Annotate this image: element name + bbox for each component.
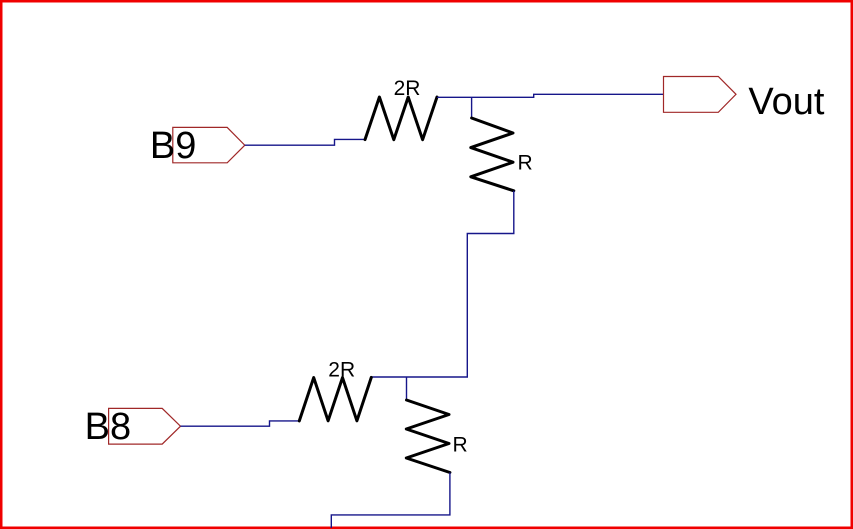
wire 2R to Vout port (437, 94, 664, 97)
port Vout (664, 77, 737, 113)
wire node B drop to bottom R (406, 377, 408, 400)
resistor R (bottom, vertical) (406, 400, 450, 473)
svg-text:2R: 2R (328, 359, 355, 382)
resistor 2R (top) (365, 97, 437, 140)
wire R down and over to node B (372, 191, 514, 377)
svg-text:2R: 2R (394, 77, 421, 100)
port B9 (173, 127, 245, 162)
svg-text:Vout: Vout (748, 81, 825, 123)
wire B8 to 2R (181, 421, 300, 426)
wire B9 to 2R (245, 139, 365, 145)
wire node A drop to R (471, 97, 473, 118)
wire bottom R to bottom edge (331, 473, 450, 529)
svg-text:R: R (518, 152, 533, 175)
svg-text:B8: B8 (85, 406, 131, 448)
svg-text:R: R (453, 434, 468, 457)
port B8 (109, 408, 181, 444)
resistor R (top, vertical) (471, 118, 514, 191)
svg-text:B9: B9 (150, 125, 196, 167)
resistor 2R (bottom) (299, 377, 371, 421)
